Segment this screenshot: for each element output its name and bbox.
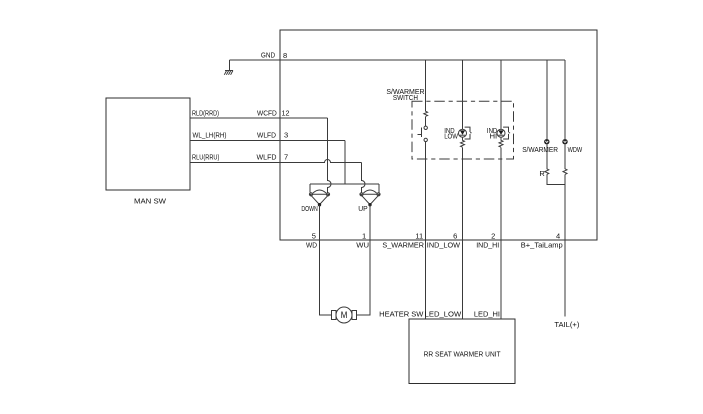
svg-text:HI: HI — [490, 132, 498, 141]
S/WARMER SWITCH label — [386, 87, 424, 102]
svg-text:SWITCH: SWITCH — [393, 93, 418, 102]
ground symbol — [224, 71, 233, 75]
switch DOWN (triangle symbol) — [309, 190, 329, 206]
wire seat warmer switch top (GND to switch) — [425, 60, 427, 111]
bulb S/WARMER illumination — [544, 139, 549, 144]
svg-text:WLFD: WLFD — [257, 152, 277, 161]
svg-text:5: 5 — [312, 232, 316, 241]
LED IND LOW — [459, 127, 472, 139]
svg-text:11: 11 — [415, 232, 423, 241]
splice squiggle on switch wire — [424, 111, 428, 116]
wire switch bottom to pin 11 to heater sw — [425, 142, 427, 319]
svg-text:WCFD: WCFD — [257, 108, 277, 117]
wire DOWN apex to pin 5 to motor left — [320, 205, 332, 315]
S/WARMER SWITCH dashed box — [412, 101, 514, 159]
wire UP apex to pin 1 to motor right — [356, 205, 370, 315]
svg-text:RLD(RRD): RLD(RRD) — [192, 108, 219, 117]
svg-text:TAIL(+): TAIL(+) — [554, 320, 579, 329]
resistor squiggle R left — [545, 169, 549, 175]
pushbutton switch S/WARMER — [417, 126, 427, 141]
wire WDW to pin 4 to tail lamp — [564, 174, 566, 316]
wire bus left corner down to DOWN left contact — [309, 184, 311, 193]
IND LOW label — [444, 126, 458, 141]
wire GND drop to ground — [229, 60, 231, 71]
svg-text:LED_LOW: LED_LOW — [425, 309, 462, 318]
wire drop from pin7 row to UP left contact (hops bus) — [362, 163, 366, 193]
wire WDW illumination from GND corner — [564, 60, 566, 139]
LED IND HI — [497, 127, 510, 139]
svg-text:WDW: WDW — [568, 145, 583, 154]
connector box main (RR seat warmer unit connector outline) — [280, 30, 597, 240]
svg-text:B+_TaiLamp: B+_TaiLamp — [521, 241, 563, 250]
wire left bulb down and join right — [547, 174, 565, 184]
wire IND HI from GND to LED — [500, 60, 502, 129]
wire GND horizontal (pin 8 row) — [230, 59, 566, 61]
svg-text:8: 8 — [283, 51, 287, 60]
svg-text:RR SEAT WARMER UNIT: RR SEAT WARMER UNIT — [424, 349, 501, 358]
wire bus right corner down to UP right contact — [378, 184, 380, 193]
wire bulb to splice — [546, 144, 548, 168]
motor M — [332, 307, 357, 323]
switch UP (triangle symbol) — [360, 190, 380, 206]
svg-text:IND_LOW: IND_LOW — [427, 241, 460, 250]
svg-text:WD: WD — [306, 241, 317, 250]
svg-text:RLU(RRU): RLU(RRU) — [192, 152, 219, 161]
svg-text:R: R — [539, 169, 544, 178]
svg-text:WL_LH(RH): WL_LH(RH) — [193, 130, 227, 139]
RR SEAT WARMER UNIT box — [409, 319, 515, 384]
resistor squiggle R right — [563, 169, 567, 175]
svg-text:S_WARMER: S_WARMER — [382, 241, 424, 250]
resistor under LED IND LOW — [461, 137, 465, 147]
svg-text:UP: UP — [358, 204, 367, 213]
svg-text:2: 2 — [491, 232, 495, 241]
wire S/WARMER illumination from GND — [546, 60, 548, 139]
wire row WCFD pin 12 — [190, 117, 328, 119]
svg-text:MAN SW: MAN SW — [134, 197, 166, 206]
svg-text:DOWN: DOWN — [301, 204, 317, 213]
svg-text:12: 12 — [282, 108, 290, 117]
svg-text:WU: WU — [356, 241, 369, 250]
svg-text:S/WARMER: S/WARMER — [522, 145, 558, 154]
wire row WLFD pin 7 (with hop over WCFD drop) — [190, 160, 362, 163]
wire bus above triangles — [310, 183, 379, 185]
wire LED LOW to pin 6 to unit — [462, 147, 464, 318]
IND HI label — [487, 126, 497, 141]
svg-text:1: 1 — [362, 232, 366, 241]
wire LED HI to pin 2 to unit — [500, 147, 502, 318]
resistor under LED IND HI — [499, 137, 503, 147]
svg-text:HEATER SW: HEATER SW — [379, 309, 423, 318]
wire drop from pin3 row to bus — [344, 141, 346, 185]
svg-text:IND_HI: IND_HI — [476, 241, 499, 250]
wire bulb down — [564, 144, 566, 168]
svg-text:M: M — [341, 310, 348, 320]
svg-text:3: 3 — [284, 130, 288, 139]
bulb WDW illumination — [562, 139, 567, 144]
svg-text:GND: GND — [261, 51, 275, 60]
MAN SW box — [106, 98, 190, 190]
wire drop from pin12 row to DOWN right contact (hops bus) — [328, 118, 332, 193]
wire squiggle to top contact — [425, 116, 427, 126]
wire IND LOW from GND to LED — [462, 60, 464, 129]
svg-text:WLFD: WLFD — [257, 130, 276, 139]
svg-text:LED_HI: LED_HI — [474, 309, 500, 318]
wire row WLFD pin 3 — [190, 140, 345, 142]
svg-text:LOW: LOW — [444, 132, 458, 141]
svg-text:6: 6 — [453, 232, 457, 241]
svg-text:7: 7 — [284, 152, 288, 161]
svg-text:4: 4 — [556, 232, 560, 241]
